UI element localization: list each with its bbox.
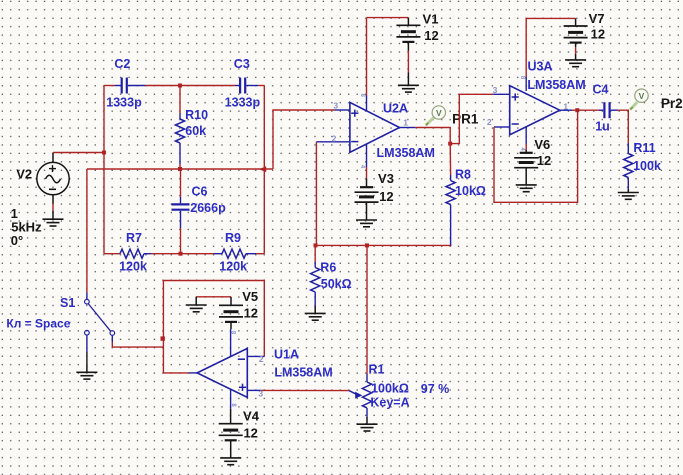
wire riser to S1 <box>86 169 88 299</box>
svg-text:LM358AM: LM358AM <box>377 146 435 160</box>
wire R9 left lead <box>181 253 223 255</box>
wire node row y169 <box>87 168 273 170</box>
label V5 <box>242 289 258 304</box>
R7 value 120k <box>119 260 147 274</box>
S1 key label <box>6 316 70 330</box>
svg-text:1: 1 <box>563 101 568 111</box>
R1 key label <box>370 396 409 410</box>
wire U2A minus down <box>315 142 317 246</box>
resistor R6 <box>311 268 320 293</box>
wire U3A minus lead <box>494 126 510 128</box>
label V3 <box>378 171 394 186</box>
svg-text:LM358AM: LM358AM <box>274 365 332 379</box>
label R10 <box>185 108 208 122</box>
svg-text:1u: 1u <box>595 119 610 133</box>
svg-text:12: 12 <box>244 306 258 321</box>
probe PR1 <box>426 106 446 125</box>
svg-text:S1: S1 <box>60 296 75 310</box>
label R9 <box>225 231 241 245</box>
svg-text:12: 12 <box>424 28 438 43</box>
ground under R11 <box>618 189 639 199</box>
ground under R1 <box>357 417 378 431</box>
wire U1A output <box>163 372 197 374</box>
junction S1 to loop <box>161 336 165 340</box>
svg-text:R7: R7 <box>126 231 142 245</box>
pin number 1 of U3A <box>563 101 568 111</box>
AC source V2 <box>37 153 69 195</box>
U2A part LM358AM <box>377 146 435 160</box>
R11 value 100k <box>633 159 661 173</box>
battery V1 <box>396 18 420 51</box>
ground under V6 <box>516 178 537 192</box>
R9 value 120k <box>219 260 247 274</box>
wire C3 left lead <box>235 85 239 87</box>
V1 value 12 <box>424 28 438 43</box>
wire R6 bottom lead <box>314 292 316 306</box>
svg-text:120k: 120k <box>119 260 147 274</box>
svg-text:Key=A: Key=A <box>370 396 409 410</box>
svg-text:V1: V1 <box>423 11 439 26</box>
V2 bottom lead <box>52 195 54 211</box>
label R11 <box>633 141 655 155</box>
wire V5 to U1A vminus pin <box>230 329 232 357</box>
junction R7-R9-C6 <box>179 252 183 256</box>
svg-text:97 %: 97 % <box>421 382 450 396</box>
junction U3A output node <box>575 108 579 112</box>
ground under V7 <box>565 54 586 67</box>
junction U2A output node <box>448 142 452 146</box>
pin number 1 of U2A <box>403 118 408 128</box>
resistor R7 <box>120 249 144 258</box>
wire R11 bottom lead <box>627 178 629 190</box>
svg-text:U2A: U2A <box>383 102 408 116</box>
wire R8 top lead <box>449 144 451 181</box>
svg-text:PR1: PR1 <box>452 112 479 127</box>
svg-text:U3A: U3A <box>527 60 552 74</box>
V4 value 12 <box>243 426 257 441</box>
wire up to U2A plus <box>273 110 350 169</box>
wire S1 lower contact to ground <box>86 335 88 365</box>
label V7 <box>589 11 605 26</box>
U3A vplus pin glyph <box>519 76 525 80</box>
wire U3A vminus pin <box>525 127 527 153</box>
ground under V1 <box>398 73 419 93</box>
R8 value 10kohm <box>455 184 486 198</box>
ground under S1 <box>76 365 97 379</box>
svg-text:Кл = Space: Кл = Space <box>6 316 70 330</box>
wire R9 right lead <box>246 253 264 255</box>
svg-text:3: 3 <box>258 388 263 398</box>
svg-text:60k: 60k <box>185 124 206 138</box>
pin number 3 of U2A <box>333 101 338 111</box>
C3 value 1333p <box>225 95 261 109</box>
svg-text:V2: V2 <box>16 167 32 182</box>
ground under V4 <box>220 450 241 465</box>
U1A vplus pin glyph <box>230 403 236 407</box>
svg-text:U1A: U1A <box>274 348 299 362</box>
wire C6 top lead <box>180 169 182 203</box>
label V2 <box>16 167 32 182</box>
battery V4 <box>219 424 243 450</box>
svg-text:100k: 100k <box>633 159 661 173</box>
resistor R8 <box>446 181 455 205</box>
svg-text:12: 12 <box>537 153 551 168</box>
svg-text:100kΩ: 100kΩ <box>371 382 409 396</box>
svg-text:120k: 120k <box>219 260 247 274</box>
wire C4 right lead <box>611 110 629 143</box>
svg-text:R6: R6 <box>320 260 336 274</box>
wire U2A vplus riser <box>367 18 409 111</box>
R1 percent label <box>421 382 450 396</box>
wire U1A vplus pin <box>230 389 232 423</box>
pin number 3 of U3A <box>493 85 498 95</box>
svg-text:2: 2 <box>259 354 264 364</box>
svg-text:V: V <box>639 91 645 101</box>
wire R10 bottom lead <box>179 143 181 169</box>
wire U1A pin3 lead <box>247 389 349 391</box>
pin number 3 of U1A <box>258 388 263 398</box>
label U3A <box>527 60 552 74</box>
C2 value 1333p <box>106 95 142 109</box>
svg-text:C3: C3 <box>234 57 250 71</box>
wire C3 down to node <box>263 86 265 170</box>
V7 value 12 <box>591 26 605 41</box>
svg-text:12: 12 <box>243 426 257 441</box>
svg-text:12: 12 <box>379 189 393 204</box>
wire U3A feedback <box>494 110 578 202</box>
capacitor C3 <box>240 78 245 94</box>
switch S1 <box>85 299 115 335</box>
wire U2A plus net <box>0 0 1 1</box>
battery V6 <box>514 153 538 178</box>
op-amp U3A <box>510 86 560 135</box>
wire V2 to node <box>53 152 104 154</box>
label R1 <box>369 362 385 376</box>
svg-text:Pr2: Pr2 <box>661 96 683 111</box>
wire U2A minus lead <box>316 141 350 143</box>
wire U2A vminus pin <box>366 144 368 187</box>
junction R10-C6-wire <box>178 167 182 171</box>
wire R1 bottom lead <box>366 408 368 417</box>
V2 value 5kHz <box>11 220 42 235</box>
wire C6 bottom lead <box>180 211 182 254</box>
svg-text:V6: V6 <box>534 137 550 152</box>
wire U1A pin2 lead <box>247 355 264 357</box>
label U1A <box>274 348 299 362</box>
resistor R10 <box>175 119 184 143</box>
svg-text:10kΩ: 10kΩ <box>455 184 486 198</box>
label C4 <box>593 82 609 96</box>
svg-text:V3: V3 <box>378 171 394 186</box>
svg-text:R1: R1 <box>369 362 385 376</box>
svg-text:3: 3 <box>333 101 338 111</box>
wire to U3A plus <box>450 94 510 143</box>
wire V1 to ground <box>407 51 409 73</box>
wire U3A vplus riser <box>526 18 575 91</box>
net arrow at C3 junction <box>259 166 266 172</box>
probe Pr2 <box>630 89 648 110</box>
ground under V3 <box>356 213 377 227</box>
capacitor C4 <box>604 102 609 118</box>
pin number 2 of U3A <box>487 117 492 127</box>
wire U2A output <box>400 128 451 144</box>
svg-text:V: V <box>436 108 442 118</box>
svg-text:C2: C2 <box>114 57 130 71</box>
R1 value 100kohm <box>371 382 409 396</box>
R1 wiper arrow <box>349 391 362 399</box>
junction V2 node <box>102 151 106 155</box>
R6 value 50kohm <box>321 277 352 291</box>
svg-text:50kΩ: 50kΩ <box>321 277 352 291</box>
wire R10 top lead <box>179 86 181 120</box>
wire V5 bias net <box>196 296 231 298</box>
svg-text:V4: V4 <box>243 409 260 424</box>
svg-text:R8: R8 <box>455 167 471 181</box>
op-amp U1A <box>197 348 247 397</box>
svg-text:2666p: 2666p <box>190 201 226 215</box>
wire C2 left lead <box>104 85 121 87</box>
resistor R11 <box>624 154 633 178</box>
capacitor C2 <box>122 78 127 94</box>
svg-text:V7: V7 <box>589 11 605 26</box>
svg-text:2: 2 <box>332 133 337 143</box>
wire V7 to ground <box>575 47 577 54</box>
potentiometer R1 <box>362 382 371 408</box>
ground under R6 <box>305 306 326 320</box>
ground at V5 <box>186 297 207 312</box>
pin number 2 of U1A <box>259 354 264 364</box>
V3 value 12 <box>379 189 393 204</box>
battery V7 <box>564 18 588 47</box>
svg-text:3: 3 <box>493 85 498 95</box>
capacitor C6 <box>172 204 190 209</box>
V2 value 0 deg <box>11 233 23 248</box>
svg-text:LM358AM: LM358AM <box>527 78 585 92</box>
ground under V2 <box>43 211 64 226</box>
U2A vminus pin glyph <box>359 165 365 169</box>
wire R11 top lead <box>627 143 629 154</box>
wire node to R1 <box>366 245 368 382</box>
wire R8 bottom lead <box>450 205 452 246</box>
label R6 <box>320 260 336 274</box>
U1A vminus pin glyph <box>230 331 236 335</box>
svg-text:C6: C6 <box>192 184 208 198</box>
wire U3A output <box>560 109 578 111</box>
label U2A <box>383 102 408 116</box>
U3A part LM358AM <box>527 78 585 92</box>
label S1 <box>60 296 75 310</box>
svg-text:0°: 0° <box>11 233 23 248</box>
svg-text:R9: R9 <box>225 231 241 245</box>
label C3 <box>234 57 250 71</box>
U3A vminus pin glyph <box>519 147 525 151</box>
wire R7 right lead <box>144 253 181 255</box>
svg-text:V5: V5 <box>242 289 258 304</box>
junction C2-C3-R10 <box>178 84 182 88</box>
svg-text:2: 2 <box>487 117 492 127</box>
svg-text:1333p: 1333p <box>225 95 261 109</box>
wire U1A feedback loop <box>163 281 264 373</box>
svg-text:C4: C4 <box>593 82 609 96</box>
wire U3A out to C4 <box>578 109 604 111</box>
svg-text:R10: R10 <box>185 108 208 122</box>
label R7 <box>126 231 142 245</box>
wire left riser C2/R7 <box>103 86 105 254</box>
wire R9 up to C3 node <box>263 169 265 254</box>
label Pr2 <box>661 96 683 111</box>
pin number 2 of U2A <box>332 133 337 143</box>
svg-text:1333p: 1333p <box>106 95 142 109</box>
label V1 <box>423 11 439 26</box>
label V6 <box>534 137 550 152</box>
U1A part LM358AM <box>274 365 332 379</box>
label C2 <box>114 57 130 71</box>
op-amp U2A <box>350 102 400 152</box>
wire C2 right lead <box>128 85 235 87</box>
svg-text:12: 12 <box>591 26 605 41</box>
label C6 <box>192 184 208 198</box>
wire R7 left lead <box>104 253 120 255</box>
label V4 <box>243 409 260 424</box>
label PR1 <box>452 112 479 127</box>
V2 value 1 <box>11 206 18 221</box>
battery V5 <box>219 297 243 329</box>
svg-text:1: 1 <box>403 118 408 128</box>
label R8 <box>455 167 471 181</box>
junction R1 riser <box>365 243 369 247</box>
R10 value 60k <box>185 124 206 138</box>
C4 value 1u <box>595 119 610 133</box>
U2A vplus pin glyph <box>359 94 365 98</box>
wire C3 right lead <box>246 85 264 87</box>
junction R6 node <box>314 243 318 247</box>
wire S1 common <box>112 335 163 347</box>
V6 value 12 <box>537 153 551 168</box>
wire mid row <box>316 244 452 246</box>
C6 value 2666p <box>190 201 226 215</box>
resistor R9 <box>222 249 246 258</box>
svg-text:R11: R11 <box>633 141 655 155</box>
wire R6 top lead <box>314 245 316 267</box>
V5 value 12 <box>244 306 258 321</box>
battery V3 <box>355 187 379 213</box>
